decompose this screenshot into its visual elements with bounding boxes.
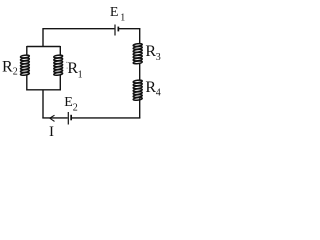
wire right vertical middle — [139, 63, 141, 81]
battery E2 — [68, 112, 72, 125]
wire bottom horizontal right of E2 — [71, 117, 140, 119]
svg-text:E: E — [64, 95, 73, 110]
label E2 — [64, 95, 78, 114]
svg-text:I: I — [49, 124, 54, 140]
wire top horizontal left of E1 — [43, 28, 115, 30]
svg-text:R: R — [145, 79, 156, 96]
svg-text:E: E — [110, 5, 119, 20]
wire right vertical lower — [139, 98, 141, 118]
label I — [49, 124, 54, 140]
scan speckle — [67, 68, 68, 69]
wire top horizontal right of E1 — [119, 28, 140, 30]
svg-text:1: 1 — [120, 12, 125, 23]
svg-text:R: R — [2, 59, 13, 76]
label E1 — [110, 5, 125, 23]
wire parallel top bar — [27, 46, 61, 48]
wire parallel bottom bar — [27, 89, 61, 91]
resistor R2 — [20, 55, 29, 76]
svg-text:2: 2 — [73, 103, 78, 114]
wire right vertical upper — [139, 28, 141, 44]
wire bottom horizontal left of E2 — [42, 117, 67, 119]
svg-text:4: 4 — [156, 88, 161, 99]
resistor R3 — [133, 43, 142, 64]
battery E1 — [114, 25, 119, 36]
label R1 — [67, 60, 82, 80]
wire left branch — [26, 46, 28, 91]
wire center stub top — [42, 28, 44, 46]
wire right branch — [59, 46, 61, 91]
svg-text:3: 3 — [156, 52, 161, 63]
resistor R4 — [133, 80, 142, 101]
wire center stub bottom — [42, 90, 44, 119]
label R4 — [145, 79, 160, 99]
svg-text:1: 1 — [78, 69, 83, 80]
label R3 — [145, 43, 160, 63]
label R2 — [2, 59, 18, 78]
resistor R1 — [54, 55, 63, 76]
svg-text:R: R — [145, 43, 156, 60]
current arrow I — [50, 115, 55, 121]
scan speckle — [66, 62, 67, 63]
svg-text:2: 2 — [13, 67, 18, 78]
